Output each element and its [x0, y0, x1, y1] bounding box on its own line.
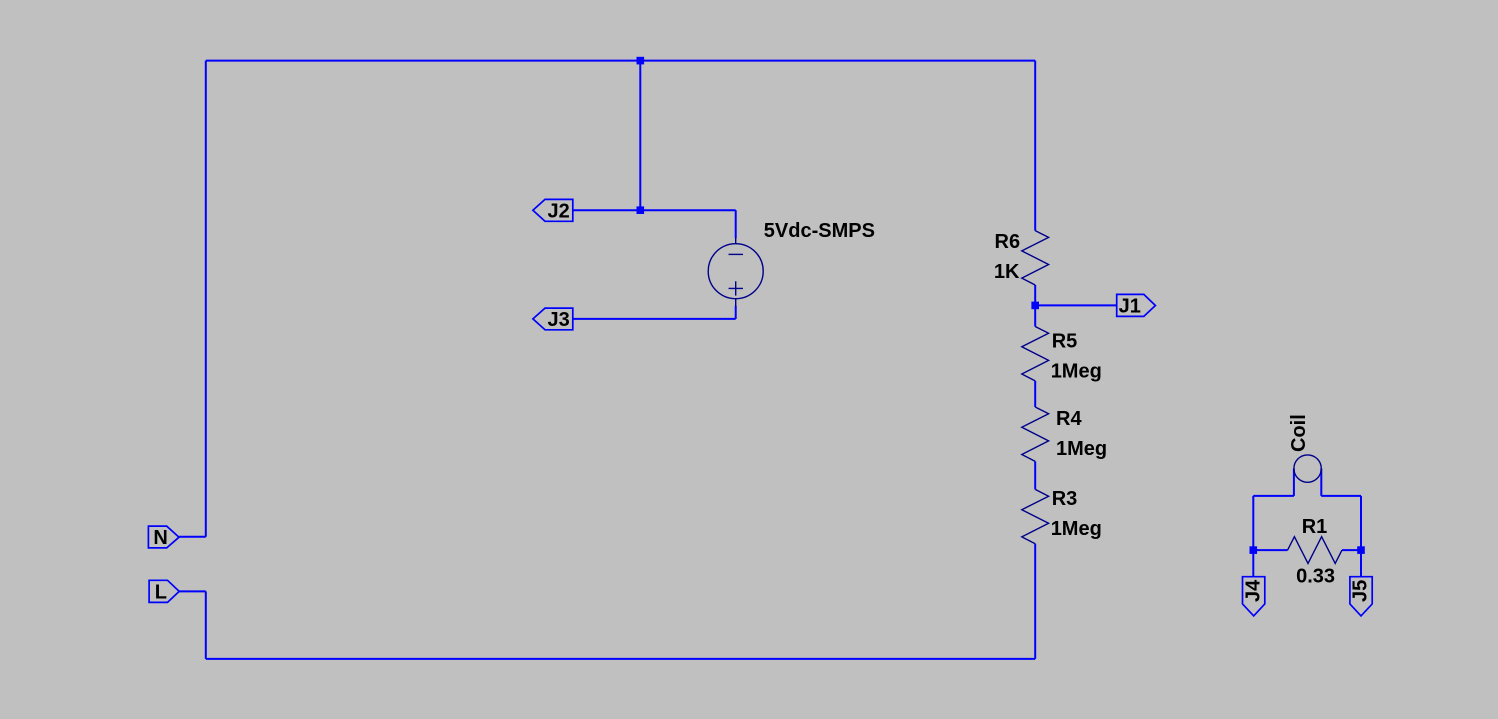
port J2 — [533, 199, 573, 221]
wire R6 to junction — [1034, 285, 1036, 327]
svg-text:R1: R1 — [1302, 516, 1328, 538]
voltage source V1 top lead — [735, 238, 737, 244]
svg-text:5Vdc-SMPS: 5Vdc-SMPS — [764, 220, 875, 242]
wire L down vertical — [205, 591, 207, 659]
resistor R1 horizontal — [1288, 537, 1342, 564]
wire R1 left — [1253, 549, 1287, 551]
resistor R6 — [1022, 231, 1049, 285]
svg-text:L: L — [155, 581, 167, 603]
wire coil left side vertical — [1293, 469, 1295, 496]
wire coil right horizontal — [1321, 495, 1361, 497]
svg-text:J2: J2 — [548, 200, 570, 222]
wire R5 to R4 — [1034, 381, 1036, 407]
voltage source plus sign — [729, 281, 744, 295]
wire into source top — [735, 210, 737, 238]
svg-text:J1: J1 — [1119, 296, 1141, 318]
svg-text:1Meg: 1Meg — [1056, 438, 1107, 460]
resistor R3 — [1022, 489, 1049, 543]
svg-text:1Meg: 1Meg — [1051, 518, 1102, 540]
wire R3 to bottom — [1034, 544, 1036, 659]
port J4 — [1243, 577, 1265, 616]
wire left branch down to J4 — [1252, 496, 1254, 577]
svg-text:N: N — [153, 527, 167, 549]
resistor R5 — [1022, 327, 1049, 381]
svg-text:J5: J5 — [1350, 580, 1372, 602]
port J3 — [533, 308, 573, 330]
wire J3 horizontal — [573, 318, 736, 320]
svg-text:0.33: 0.33 — [1296, 565, 1335, 587]
junction R1 right — [1357, 546, 1365, 554]
wire L stub — [179, 590, 206, 592]
wire bottom horizontal — [206, 658, 1035, 660]
junction R1 left — [1250, 546, 1258, 554]
wire J2 horizontal — [573, 209, 736, 211]
resistor R4 — [1022, 407, 1049, 461]
junction J2 — [637, 206, 645, 214]
svg-text:J3: J3 — [548, 309, 570, 331]
wire top horizontal — [206, 60, 1035, 62]
wire coil right side vertical — [1320, 469, 1322, 496]
wire junction to J1 — [1035, 304, 1117, 306]
svg-text:1K: 1K — [994, 261, 1020, 283]
svg-text:1Meg: 1Meg — [1051, 360, 1102, 382]
wire R1 right — [1342, 549, 1361, 551]
wire R4 to R3 — [1034, 461, 1036, 489]
voltage source minus sign — [729, 253, 744, 255]
junction top — [637, 57, 645, 65]
wire N stub — [179, 536, 206, 538]
voltage source V1 circle — [708, 244, 763, 299]
junction J1 node — [1031, 302, 1039, 310]
svg-text:R3: R3 — [1052, 488, 1078, 510]
wire coil left horizontal — [1253, 495, 1294, 497]
wire right branch down to J5 — [1360, 496, 1362, 577]
svg-text:Coil: Coil — [1288, 414, 1310, 452]
port N — [148, 526, 179, 548]
wire left vertical — [205, 61, 207, 537]
coil circle — [1294, 455, 1321, 482]
voltage source V1 bottom lead — [735, 299, 737, 307]
svg-text:R5: R5 — [1052, 330, 1078, 352]
svg-text:R4: R4 — [1056, 408, 1082, 430]
wire middle vertical — [639, 61, 641, 211]
wire from source bottom — [735, 306, 737, 319]
port J5 — [1350, 577, 1372, 616]
port J1 — [1117, 294, 1156, 316]
svg-text:J4: J4 — [1242, 579, 1264, 602]
svg-text:R6: R6 — [995, 231, 1021, 253]
wire right vertical upper — [1034, 61, 1036, 231]
port L — [149, 580, 179, 602]
